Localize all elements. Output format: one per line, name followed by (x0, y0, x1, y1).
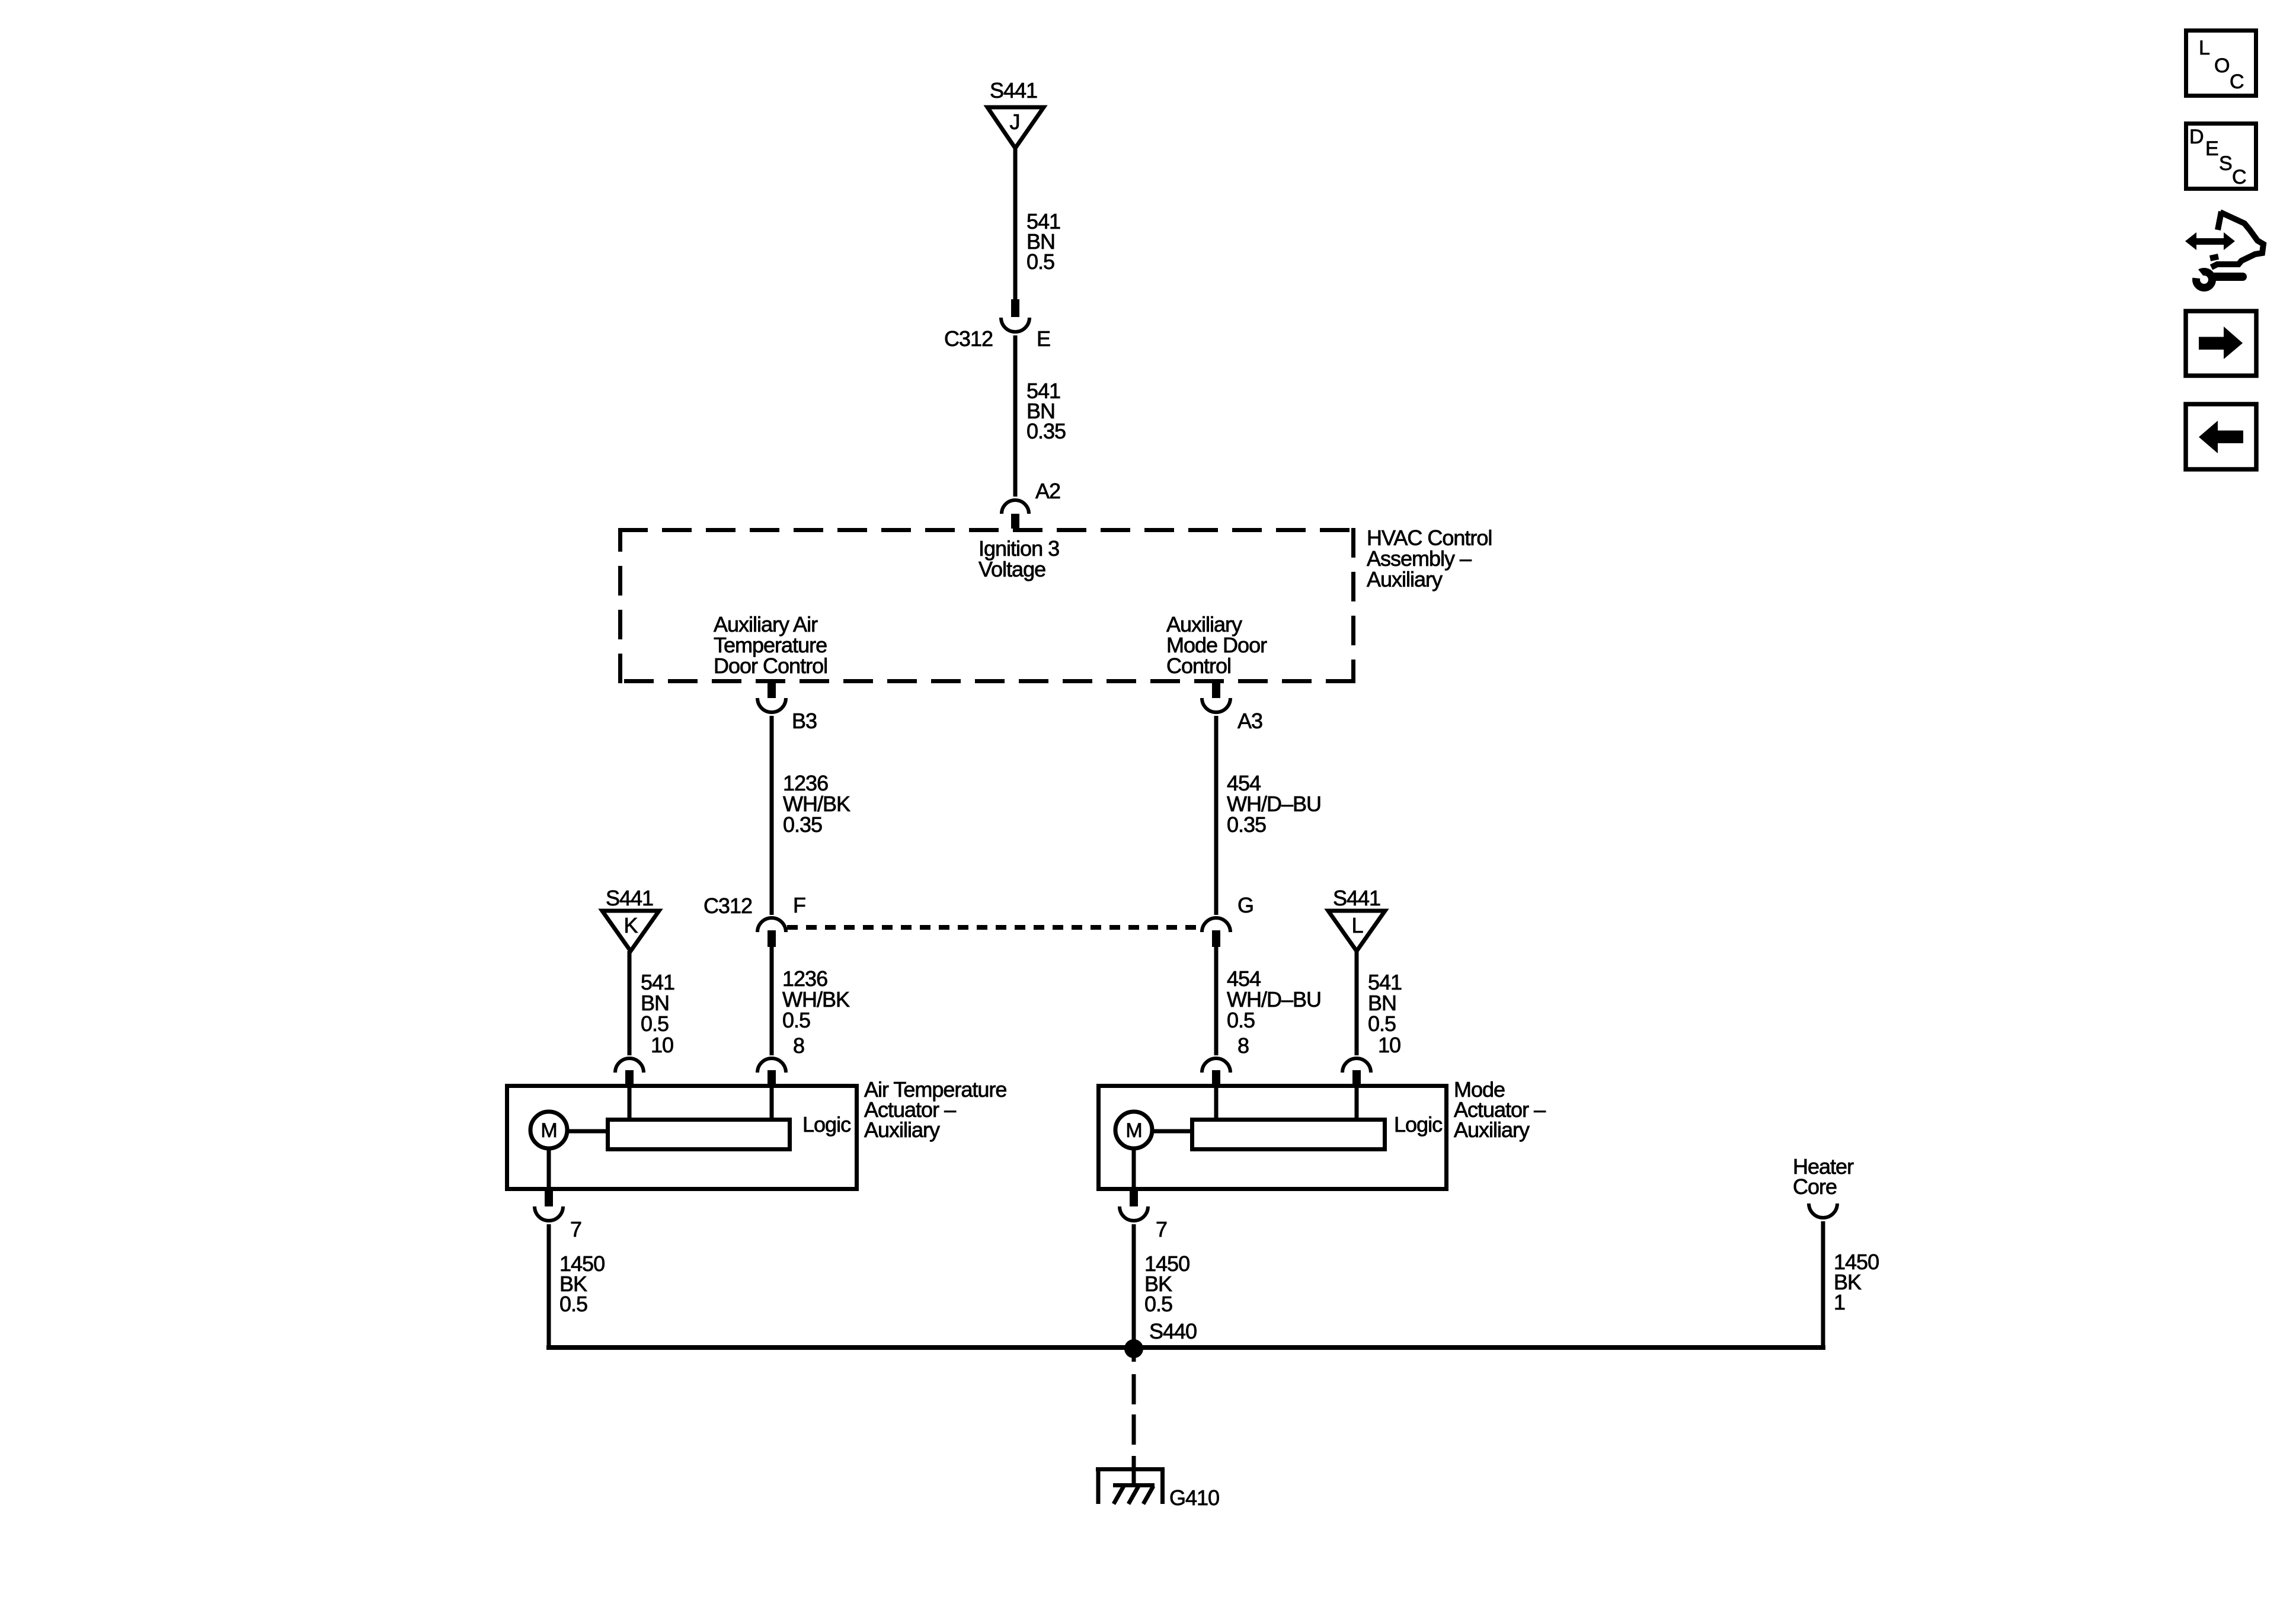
svg-text:0.5: 0.5 (1144, 1292, 1172, 1316)
wire pin 8 to logic (inside box) (770, 1086, 774, 1118)
svg-text:0.5: 0.5 (1368, 1012, 1396, 1036)
splice triangle J (987, 107, 1044, 148)
svg-text:L: L (1351, 913, 1363, 937)
svg-text:S440: S440 (1149, 1319, 1197, 1343)
svg-text:10: 10 (1378, 1033, 1400, 1057)
connector C312 pin G (male pin) (1212, 930, 1220, 947)
svg-text:0.5: 0.5 (1227, 1008, 1255, 1032)
svg-text:Door Control: Door Control (714, 654, 827, 678)
svg-text:S: S (2219, 152, 2232, 175)
connector pin 10 (female dome) (615, 1058, 644, 1073)
wire M to logic (1152, 1129, 1192, 1134)
connector pin 10 (male pin into box) (1352, 1070, 1361, 1086)
Air Temperature Actuator box (507, 1086, 857, 1189)
icon vehicle outline with arrows and wrench (2183, 212, 2263, 288)
wire Heater Core to ground bus (1821, 1221, 1825, 1350)
connector C312 pin E (female cup) (1001, 318, 1029, 332)
wire A3 to C312-G (1214, 716, 1219, 915)
connector pin 10 (male pin into box) (625, 1070, 634, 1086)
svg-text:0.5: 0.5 (559, 1292, 587, 1316)
wire pin 7 to ground bus (547, 1224, 551, 1347)
icon DESC box (2186, 124, 2256, 189)
svg-text:8: 8 (1237, 1033, 1249, 1058)
svg-text:L: L (2199, 37, 2209, 59)
svg-text:D: D (2189, 126, 2204, 148)
wire S441-K to actuator pin 10 (628, 951, 632, 1055)
connector C312 pin F (female dome) (757, 918, 786, 932)
svg-text:M: M (1125, 1119, 1141, 1142)
svg-text:C: C (2232, 166, 2246, 188)
svg-text:7: 7 (570, 1217, 581, 1241)
connector B3 (female cup) (757, 698, 786, 712)
svg-text:Voltage: Voltage (978, 557, 1045, 581)
connector A3 (female cup) (1202, 698, 1230, 712)
svg-text:S441: S441 (606, 886, 653, 910)
wire M to pin 7 (1132, 1148, 1136, 1191)
svg-text:0.5: 0.5 (1027, 249, 1054, 274)
connector pin 8 (male pin into box) (1212, 1070, 1220, 1086)
wire M to pin 7 (547, 1148, 551, 1191)
svg-text:Logic: Logic (1394, 1112, 1443, 1137)
connector B3 (male pin from box) (768, 683, 776, 698)
svg-text:0.5: 0.5 (782, 1008, 810, 1032)
svg-text:E: E (1037, 327, 1050, 351)
wire C312-E to HVAC A2 (1013, 335, 1018, 497)
wire pin 10 to logic (inside box) (628, 1086, 632, 1118)
connector pin 7 (female cup) (535, 1206, 563, 1221)
svg-text:Control: Control (1166, 654, 1231, 678)
svg-text:A3: A3 (1237, 709, 1262, 733)
connector A2 (female dome) (1002, 500, 1029, 514)
dashed wire S440 to G410 (1132, 1353, 1136, 1485)
connector pin 10 (female dome) (1342, 1058, 1371, 1073)
wire S441-J to C312-E (1013, 148, 1018, 299)
connector pin 8 (female dome) (1202, 1058, 1230, 1073)
svg-text:C312: C312 (944, 327, 993, 351)
wire pin 10 to logic (inside box) (1355, 1086, 1359, 1118)
connector pin 8 (male pin into box) (768, 1070, 776, 1086)
wire B3 to C312-F (770, 716, 774, 915)
svg-text:0.35: 0.35 (1027, 419, 1066, 443)
svg-text:1: 1 (1834, 1290, 1845, 1314)
svg-text:G410: G410 (1169, 1486, 1219, 1510)
svg-text:Auxiliary: Auxiliary (1367, 567, 1443, 591)
HVAC Control Assembly dashed box (618, 528, 1355, 683)
svg-text:K: K (623, 913, 638, 937)
connector pin 7 (male pin from box) (545, 1191, 553, 1206)
svg-text:C: C (2230, 71, 2244, 93)
connector pin 7 (female cup) (1120, 1206, 1148, 1221)
svg-text:M: M (541, 1119, 557, 1142)
motor M (left actuator) (530, 1112, 567, 1148)
connector C312 pin E (male pin) (1011, 299, 1019, 317)
ground G410 symbol (1096, 1467, 1165, 1504)
svg-text:F: F (793, 893, 805, 917)
svg-text:S441: S441 (1333, 886, 1380, 910)
connector pin 7 (male pin from box) (1130, 1191, 1138, 1206)
icon LOC box (2186, 31, 2256, 96)
connector C312 pin F (male pin) (768, 930, 776, 947)
svg-text:10: 10 (651, 1033, 673, 1057)
splice triangle L (1328, 911, 1385, 951)
icon back arrow box (2186, 404, 2256, 469)
connector A2 (male pin into box) (1011, 514, 1019, 529)
svg-text:0.35: 0.35 (783, 812, 822, 837)
connector Heater Core (female cup) (1809, 1204, 1837, 1218)
svg-text:Logic: Logic (802, 1112, 851, 1137)
wire pin 8 to logic (inside box) (1214, 1086, 1219, 1118)
svg-text:G: G (1237, 893, 1253, 917)
connector pin 8 (female dome) (757, 1058, 786, 1073)
svg-text:0.35: 0.35 (1227, 812, 1266, 837)
svg-text:E: E (2205, 137, 2218, 160)
ground bus wire (546, 1345, 1825, 1350)
svg-text:B3: B3 (792, 709, 817, 733)
svg-text:8: 8 (793, 1033, 804, 1058)
Mode Actuator box (1099, 1086, 1447, 1189)
wire S441-L to actuator pin 10 (1355, 951, 1359, 1055)
splice triangle K (602, 911, 659, 951)
connector C312 boundary dotted line F to G (787, 925, 1202, 930)
svg-text:A2: A2 (1035, 479, 1060, 503)
wire C312-G to actuator pin 8 (1214, 947, 1219, 1055)
svg-text:Auxiliary: Auxiliary (864, 1118, 940, 1142)
svg-text:Core: Core (1793, 1174, 1837, 1199)
wire C312-F to actuator pin 8 (770, 947, 774, 1055)
splice S440 junction dot (1124, 1339, 1143, 1358)
icon next arrow box (2186, 311, 2256, 376)
connector A3 (male pin from box) (1212, 683, 1220, 698)
svg-text:J: J (1010, 110, 1020, 134)
svg-text:O: O (2214, 55, 2229, 77)
logic block (left actuator) (608, 1120, 790, 1150)
svg-text:S441: S441 (990, 78, 1037, 103)
wire M to logic (567, 1129, 607, 1134)
svg-text:C312: C312 (703, 894, 752, 918)
svg-text:7: 7 (1156, 1217, 1167, 1241)
motor M (right actuator) (1115, 1112, 1152, 1148)
logic block (right actuator) (1192, 1120, 1385, 1150)
connector C312 pin G (female dome) (1202, 918, 1230, 932)
svg-text:0.5: 0.5 (641, 1012, 669, 1036)
wire pin 7 to splice S440 (1132, 1224, 1136, 1347)
svg-text:Auxiliary: Auxiliary (1454, 1118, 1530, 1142)
